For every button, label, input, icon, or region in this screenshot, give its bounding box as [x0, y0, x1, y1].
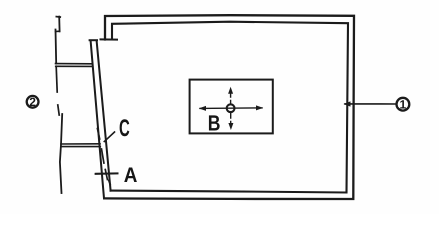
balloon circle 1 — [397, 98, 410, 111]
svg-text:1: 1 — [400, 98, 407, 112]
open door phantom dash a — [58, 105, 59, 115]
door leaf C top cap — [90, 39, 97, 41]
open door phantom line (element 2) top cap — [56, 16, 60, 18]
arrowhead down — [228, 123, 233, 130]
leader line for C — [104, 132, 114, 142]
open door phantom line segment 1 — [58, 17, 60, 32]
tick A marker — [96, 172, 118, 174]
door leaf C left line — [91, 41, 104, 199]
wire inner wall path — [111, 22, 348, 193]
rail rung upper (double line) — [56, 64, 93, 67]
open door phantom jog — [56, 30, 60, 32]
open door phantom segment 3 — [56, 66, 57, 92]
wire outer wall path — [104, 15, 354, 199]
arrowhead up — [228, 87, 233, 94]
rail rung lower (double line) — [61, 144, 100, 147]
dashed hidden edge along door — [97, 129, 110, 185]
svg-text:2: 2 — [29, 95, 36, 109]
open door phantom segment 2 — [55, 30, 58, 64]
wire jamb cap at door opening — [101, 38, 118, 40]
horizontal arrow line in box — [200, 107, 262, 110]
leader line for 1 — [345, 103, 396, 105]
arrowhead left — [199, 106, 206, 111]
screen box B — [190, 80, 273, 134]
door leaf C right line — [97, 41, 111, 191]
svg-text:A: A — [124, 164, 138, 187]
arrowhead right — [256, 105, 263, 110]
center circle of mark B — [227, 104, 235, 112]
vertical dashed arrow line in box — [230, 92, 232, 126]
balloon circle 2 — [27, 96, 39, 108]
open door phantom segment 4 — [60, 114, 62, 193]
svg-text:B: B — [208, 111, 221, 136]
svg-text:C: C — [119, 115, 130, 142]
arrowhead of leader 1 — [343, 101, 350, 106]
